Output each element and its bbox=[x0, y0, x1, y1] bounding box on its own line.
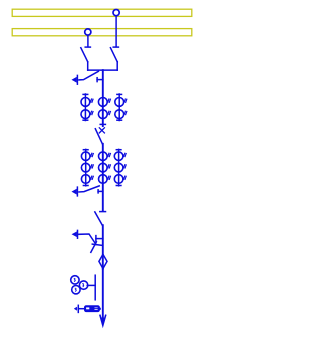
voltage transformer TV1 right winding bbox=[79, 281, 87, 289]
wire: QS2 pivot down to joiner bbox=[87, 62, 89, 70]
CT 1c secondary marks bbox=[108, 99, 111, 102]
CT 2e circle (on main wire) bbox=[99, 163, 108, 172]
earth switch ES3 stub to main wire bbox=[96, 238, 103, 240]
disconnector QS1 fixed contact tick bbox=[113, 46, 118, 48]
CT 2f circle (on main wire) bbox=[99, 175, 108, 184]
wire: drop from busbar-2 node to disconnector QS2 bbox=[87, 34, 89, 46]
busbar 1 (upper) bbox=[12, 9, 192, 16]
earth switch ES3 earth bar bbox=[77, 230, 79, 238]
fuse cartridge F1 stripes bbox=[95, 308, 98, 310]
busbar 2 (lower) bbox=[12, 29, 192, 36]
CT 2b secondary marks bbox=[91, 165, 94, 168]
feeder arrow inner shaft taper bbox=[102, 318, 104, 325]
CT group 2 right column wire with end ticks bbox=[118, 149, 120, 185]
earth switch ES2 arrow head bbox=[72, 189, 76, 194]
CT 2i secondary marks bbox=[124, 176, 127, 179]
wire: TV1 connection lead bbox=[87, 284, 95, 286]
surge arrester FV1 diamond bbox=[99, 254, 107, 268]
CT 1c circle (on main wire) bbox=[98, 98, 107, 107]
CT 1a secondary marks bbox=[90, 99, 93, 102]
CT 2d circle (on main wire) bbox=[99, 152, 108, 161]
fuse cartridge F1 window bbox=[86, 307, 89, 309]
CT 2b circle bbox=[81, 163, 90, 172]
earth switch ES2 stub to main wire bbox=[98, 190, 103, 192]
CT 1d secondary marks bbox=[108, 111, 111, 114]
CT 2a secondary marks bbox=[91, 153, 94, 156]
CT group 1 right column wire with end ticks bbox=[118, 94, 120, 121]
voltage transformer TV1 bottom winding bbox=[72, 286, 80, 294]
voltage transformer TV1 top winding mark bbox=[74, 278, 75, 281]
CT 2g circle bbox=[114, 152, 123, 161]
wire: QS1 pivot down to joiner bbox=[116, 62, 118, 70]
node B: connection circle on busbar 2 bbox=[85, 29, 91, 35]
TV1 isolating bar bbox=[94, 275, 96, 300]
CT 1d circle (on main wire) bbox=[98, 110, 107, 119]
fuse cartridge F1 lead bbox=[79, 308, 85, 310]
disconnector QS3 fixed contact tick bbox=[100, 123, 105, 125]
feeder arrow head (line continues down) bbox=[100, 315, 106, 325]
CT 1f circle bbox=[115, 110, 124, 119]
earth switch ES2 blade bbox=[79, 186, 99, 192]
earth switch ES1 fixed contact bar bbox=[96, 78, 98, 82]
CT 1e circle bbox=[115, 98, 124, 107]
CT 1f secondary marks bbox=[124, 111, 127, 114]
disconnector QS2 blade (open) bbox=[81, 48, 88, 62]
fuse cartridge F1 earth bar bbox=[77, 305, 79, 312]
earth switch ES3 blade bbox=[79, 234, 96, 245]
earth switch ES2 earth bar bbox=[76, 187, 78, 196]
earth switch ES3 fixed contact bar bbox=[95, 236, 97, 242]
earth switch ES1 stub to main wire bbox=[97, 79, 103, 81]
CT 1e secondary marks bbox=[124, 99, 127, 102]
CT group 2 left column wire with end ticks bbox=[85, 149, 87, 185]
CT 2f secondary marks bbox=[108, 176, 111, 179]
earth switch ES3 cross stroke a bbox=[92, 244, 101, 245]
disconnector QS1 blade (open) bbox=[110, 48, 117, 62]
voltage transformer TV1 top winding bbox=[71, 276, 79, 284]
voltage transformer TV1 right winding mark bbox=[83, 284, 84, 287]
voltage transformer TV1 bottom winding mark bbox=[75, 288, 76, 291]
CT 2h secondary marks bbox=[124, 165, 127, 168]
earth switch ES3 arrow head bbox=[72, 232, 76, 236]
fuse cartridge F1 body bbox=[85, 306, 100, 312]
wire: main feeder middle section bbox=[102, 144, 104, 211]
CT 2d secondary marks bbox=[108, 153, 111, 156]
CT 2a circle bbox=[81, 152, 90, 161]
disconnector QS3 invalid-state cross bbox=[99, 128, 104, 133]
wire: horizontal joiner between QS1 and QS2 bbox=[88, 69, 118, 71]
earth switch ES1 arrow head bbox=[72, 78, 76, 83]
CT 2c circle bbox=[81, 175, 90, 184]
earth switch ES3 cross stroke b bbox=[91, 242, 97, 253]
node A: connection circle on busbar 1 bbox=[113, 10, 119, 16]
CT 2g secondary marks bbox=[124, 153, 127, 156]
fuse cartridge F1 nub bbox=[99, 308, 100, 310]
CT 1b circle bbox=[81, 110, 90, 119]
CT 2h circle bbox=[114, 163, 123, 172]
earth switch ES1 blade bbox=[79, 71, 99, 80]
disconnector QS4 fixed contact tick bbox=[100, 211, 106, 213]
disconnector QS4 blade (open) bbox=[95, 212, 103, 225]
wire: main feeder bottom section bbox=[102, 269, 104, 318]
CT group 1 left column wire with end ticks bbox=[84, 94, 86, 121]
CT 1a circle bbox=[81, 98, 90, 107]
fuse cartridge F1 arrow head bbox=[74, 307, 76, 310]
earth switch ES2 fixed contact bar bbox=[97, 190, 99, 193]
disconnector QS3 blade (open) bbox=[95, 129, 102, 144]
disconnector QS2 fixed contact tick bbox=[85, 46, 90, 48]
CT 2e secondary marks bbox=[108, 165, 111, 168]
earth switch ES1 earth bar bbox=[76, 75, 78, 84]
wire: main feeder upper section bbox=[102, 70, 104, 126]
CT 1b secondary marks bbox=[90, 111, 93, 114]
wire: main feeder lower section bbox=[102, 225, 104, 269]
CT 2c secondary marks bbox=[91, 176, 94, 179]
CT 2i circle bbox=[114, 175, 123, 184]
wire: drop from busbar-1 node to disconnector QS1 bbox=[115, 15, 117, 46]
